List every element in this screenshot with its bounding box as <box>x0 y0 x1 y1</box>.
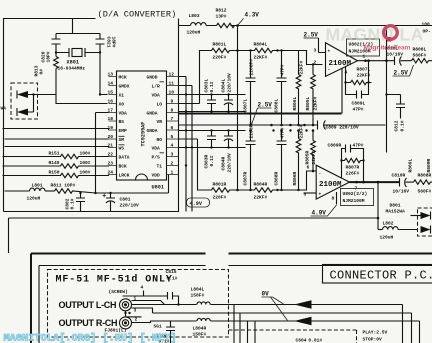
svg-text:RO: RO <box>157 137 163 143</box>
svg-text:10/16V: 10/16V <box>387 52 404 58</box>
bias rail 2 with C809 <box>179 124 386 126</box>
svg-text:D801: D801 <box>390 203 401 209</box>
wire top ground rail of oscillator <box>56 33 100 35</box>
svg-text:VR: VR <box>157 119 163 125</box>
wire supply drop to filters <box>237 26 239 51</box>
svg-text:LO: LO <box>157 102 163 108</box>
svg-text:X0: X0 <box>119 102 125 108</box>
capacitor C801 220/10V (polarized) <box>103 192 140 212</box>
dual diode D801 (dashed box, right edge) <box>411 208 432 236</box>
0V net label with leaders <box>262 291 288 321</box>
wire box top to oscillator rail <box>72 19 74 34</box>
svg-text:150F#: 150F# <box>193 332 207 338</box>
svg-text:GNDA: GNDA <box>147 128 158 134</box>
ground mid line <box>153 313 412 343</box>
svg-text:2.5V: 2.5V <box>394 70 409 77</box>
svg-text:3: 3 <box>134 308 137 314</box>
svg-text:BS: BS <box>119 119 125 125</box>
wire VDA pin17 feed <box>96 113 109 194</box>
svg-text:0#: 0# <box>39 69 45 75</box>
pin1 output node <box>358 54 395 63</box>
D/A converter section box <box>4 19 179 212</box>
wire IC pin1 VDD down <box>168 175 170 194</box>
svg-text:C803R: C803R <box>204 154 210 168</box>
svg-text:5: 5 <box>171 134 174 140</box>
svg-text:P/S: P/S <box>152 155 161 161</box>
capacitor C820 <box>41 34 61 63</box>
svg-text:C815: C815 <box>166 269 177 275</box>
svg-text:R801R: R801R <box>213 182 227 188</box>
svg-text:C801: C801 <box>120 197 131 203</box>
svg-text:0.1#: 0.1# <box>209 81 215 92</box>
svg-text:13P#: 13P# <box>216 14 227 20</box>
RCA jack FJ801 L <box>120 299 132 311</box>
svg-text:6: 6 <box>171 125 174 131</box>
output capacitor C810L 10/16V <box>385 46 412 66</box>
lower section inner frame <box>39 266 432 343</box>
resistor R805L 22K (vertical) <box>305 63 319 126</box>
svg-text:U801: U801 <box>152 185 164 191</box>
designator U802(1/2) NJM2100M <box>347 39 380 56</box>
wire crystal line B to IC pin15 <box>100 47 108 95</box>
svg-text:10/16V: 10/16V <box>393 189 410 195</box>
svg-text:1: 1 <box>134 296 137 302</box>
vertical bus beside IC (ground) <box>179 77 187 212</box>
svg-text:4: 4 <box>171 143 174 149</box>
svg-text:MAGNITOLA[.ORG] [.RU] [.NET]: MAGNITOLA[.ORG] [.RU] [.NET] <box>4 333 177 343</box>
svg-text:GMDX: GMDX <box>119 84 130 90</box>
svg-text:+: + <box>319 193 322 198</box>
svg-text:OP-: OP- <box>423 29 432 35</box>
IC U801 TC9299AF <box>117 71 167 191</box>
svg-text:5: 5 <box>304 192 307 198</box>
svg-text:100#: 100# <box>80 151 91 157</box>
svg-text:2: 2 <box>135 317 138 323</box>
resistor R151 100 (DATA line) <box>3 151 109 159</box>
svg-text:3: 3 <box>314 48 317 54</box>
svg-text:220/10V: 220/10V <box>227 153 233 173</box>
svg-text:STOP:0V: STOP:0V <box>363 337 383 343</box>
svg-text:150F#: 150F# <box>191 293 205 299</box>
svg-text:(D/A CONVERTER): (D/A CONVERTER) <box>98 10 177 20</box>
svg-text:OUTPUT L-CH: OUTPUT L-CH <box>59 300 117 310</box>
svg-text:3: 3 <box>171 152 174 158</box>
svg-text:47P#: 47P# <box>353 143 364 149</box>
svg-text:C807L: C807L <box>243 98 249 112</box>
svg-text:L803: L803 <box>189 13 200 19</box>
svg-text:0.1#: 0.1# <box>400 120 406 131</box>
svg-text:100#: 100# <box>80 170 91 176</box>
svg-text:C810R: C810R <box>392 173 406 179</box>
resistor R801R 220 <box>198 182 238 201</box>
svg-text:NJM2100M: NJM2100M <box>343 198 365 204</box>
inductor L803 120uH <box>187 13 207 36</box>
output capacitor C810R 10/16V <box>392 173 414 195</box>
svg-text:R151: R151 <box>49 151 60 157</box>
svg-text:4.9V: 4.9V <box>312 210 327 217</box>
svg-text:DATA: DATA <box>119 155 130 161</box>
svg-text:GNDD: GNDD <box>147 75 158 81</box>
dual diode D802 (dashed box) <box>1 83 38 119</box>
svg-text:C809 220/10V: C809 220/10V <box>326 125 359 131</box>
svg-text:LRCK: LRCK <box>119 173 130 179</box>
svg-text:13: 13 <box>108 72 114 78</box>
arrow on L line <box>294 300 312 308</box>
capacitor C808R 47P <box>274 127 287 191</box>
svg-text:MCK: MCK <box>119 75 128 81</box>
feedback resistor R807L 22K <box>344 59 371 84</box>
svg-text:X1: X1 <box>119 93 125 99</box>
svg-text:LA: LA <box>400 25 424 45</box>
svg-text:2200P#: 2200P# <box>249 122 255 139</box>
svg-text:100#: 100# <box>80 160 91 166</box>
svg-text:R805R: R805R <box>305 150 311 164</box>
capacitor C803L 0.1 <box>204 78 217 112</box>
resistor R808R 560 <box>414 173 432 195</box>
wire R output down to connector rail <box>377 182 379 229</box>
op-amp U802 (2/2) R channel <box>316 165 349 199</box>
svg-text:C808R: C808R <box>274 171 280 185</box>
svg-text:8: 8 <box>171 108 174 114</box>
svg-text:R812: R812 <box>216 8 227 14</box>
resistor R806L 22K (vertical) <box>292 51 305 127</box>
L-ch signal line to connector <box>132 303 403 343</box>
svg-text:+: + <box>328 50 331 55</box>
label 2.5V (filter bias) <box>252 102 273 125</box>
svg-text:22KF#: 22KF# <box>357 73 371 79</box>
svg-text:47P#: 47P# <box>280 127 286 138</box>
svg-text:22KF#: 22KF# <box>254 195 268 201</box>
svg-text:16: 16 <box>108 99 114 105</box>
IC left pin stubs and numbers 13-24 <box>108 72 130 179</box>
op-amp U802 (1/2) L channel <box>326 43 358 77</box>
capacitor C815 0.1 (series) <box>166 269 178 300</box>
svg-text:L804L: L804L <box>191 287 205 293</box>
svg-text:SM: SM <box>119 137 125 143</box>
lower section outer frame <box>31 254 432 343</box>
svg-text:15: 15 <box>108 90 114 96</box>
arrow on R line <box>294 317 312 325</box>
svg-text:VDA: VDA <box>152 93 161 99</box>
svg-text:R804R: R804R <box>254 182 268 188</box>
jack pin 1 wire <box>132 301 165 305</box>
svg-text:C604 0.01#: C604 0.01# <box>296 338 323 343</box>
IC right pin stubs and numbers 12-1 <box>147 72 179 179</box>
resistor R811 10P <box>51 183 169 194</box>
svg-text:C804R: C804R <box>221 156 227 170</box>
svg-text:R809L: R809L <box>408 158 414 172</box>
svg-text:47P#: 47P# <box>353 107 364 113</box>
svg-text:7: 7 <box>171 116 174 122</box>
svg-text:R806R: R806R <box>292 171 298 185</box>
inductor L802 120uH <box>378 221 418 241</box>
svg-text:R804L: R804L <box>254 42 268 48</box>
svg-text:C809R: C809R <box>328 143 342 149</box>
wire to R opamp inverting input <box>278 171 317 190</box>
feedback capacitor C809R 47P <box>328 143 364 161</box>
vertical bus 2 <box>179 86 193 212</box>
svg-text:X801: X801 <box>67 60 79 66</box>
inductor L801 120uH <box>5 183 55 202</box>
svg-text:L802: L802 <box>383 221 394 227</box>
svg-text:EMP: EMP <box>119 128 128 134</box>
resistor R804R 22K <box>238 182 279 201</box>
svg-text:VDA: VDA <box>152 146 161 152</box>
label 2.5V (L output) <box>393 65 414 77</box>
capacitor C809 220/10V (series) <box>318 121 359 131</box>
wire diode clamp to IC pin16 <box>34 95 108 104</box>
svg-text:0V: 0V <box>262 291 270 298</box>
svg-text:220F#: 220F# <box>213 195 227 201</box>
svg-text:560F#: 560F# <box>413 53 427 59</box>
capacitor C814 0.1 (to ground) <box>154 321 176 343</box>
node 4.3V <box>236 12 259 27</box>
svg-text:120uH: 120uH <box>187 30 201 36</box>
svg-text:R806L: R806L <box>292 96 298 110</box>
svg-text:C808L: C808L <box>274 98 280 112</box>
resistor R150 100 (LRCK line) <box>3 170 109 178</box>
resistor R801L 220 <box>200 42 238 61</box>
svg-text:120uH: 120uH <box>27 196 41 202</box>
svg-text:MA152WA: MA152WA <box>386 209 406 215</box>
capacitor C812 0.1 <box>387 95 406 132</box>
svg-text:22KF#: 22KF# <box>299 60 305 74</box>
svg-text:WS: WS <box>119 146 125 152</box>
capacitor C807R 2200P <box>243 122 256 191</box>
CONNECTOR P.C.B title box <box>323 265 432 284</box>
capacitor C804L 220/10V <box>221 73 234 113</box>
svg-text:MF-51 MF-51d ONLY: MF-51 MF-51d ONLY <box>56 274 173 286</box>
svg-text:22KF#: 22KF# <box>254 55 268 61</box>
svg-text:2: 2 <box>171 161 174 167</box>
svg-text:2200P#: 2200P# <box>249 59 255 76</box>
svg-text:VDA: VDA <box>119 111 128 117</box>
svg-text:C809L: C809L <box>352 101 366 107</box>
wire SM input <box>5 138 109 140</box>
svg-text:22KF#: 22KF# <box>311 150 317 164</box>
vertical 2.5V distribution line <box>386 26 388 153</box>
svg-text:2.5V: 2.5V <box>258 102 273 109</box>
resistor R804L 22K <box>238 42 279 61</box>
svg-text:0.1#: 0.1# <box>167 276 178 282</box>
svg-text:4: 4 <box>141 285 144 291</box>
svg-text:MagnitolaTeam: MagnitolaTeam <box>364 45 411 52</box>
svg-text:2: 2 <box>314 60 317 66</box>
screw pin 4 line <box>109 285 179 305</box>
bus GNDA R (pin6 row) <box>179 130 246 132</box>
connector feed rail <box>9 217 379 219</box>
inductor L804L 150 (ferrite) <box>191 287 211 309</box>
svg-text:22KF#: 22KF# <box>299 124 305 138</box>
RCA jack FJ801 R <box>120 317 132 329</box>
crystal X801 16-9344MHz <box>55 48 101 72</box>
svg-text:226F#: 226F# <box>346 171 360 177</box>
svg-text:L801: L801 <box>32 183 43 189</box>
resistor R145 100 (BCK line) <box>3 160 109 168</box>
svg-text:R808L: R808L <box>413 47 427 53</box>
svg-text:9: 9 <box>171 99 174 105</box>
svg-text:11: 11 <box>169 81 175 87</box>
svg-text:18P#: 18P# <box>111 37 117 48</box>
watermark MAGNITOLA (top right) <box>326 25 424 45</box>
wire LO pin9 to L filter <box>179 51 206 104</box>
svg-text:TC9299AF: TC9299AF <box>141 122 147 147</box>
svg-text:OUTPUT R-CH: OUTPUT R-CH <box>59 318 118 328</box>
svg-text:0.1#: 0.1# <box>70 198 76 209</box>
svg-text:220/10V: 220/10V <box>120 203 140 209</box>
svg-text:SG1: SG1 <box>154 324 163 330</box>
svg-text:R145: R145 <box>49 160 60 166</box>
designator U802(2/2) NJM2100M <box>341 189 374 206</box>
svg-text:WA: WA <box>1 106 7 112</box>
svg-text:VDD: VDD <box>152 173 161 179</box>
svg-text:R809R: R809R <box>426 158 432 172</box>
diode D801 MA152WA label <box>386 203 406 215</box>
svg-text:4.3V: 4.3V <box>245 12 260 19</box>
PLAY/STOP voltage note <box>363 330 388 343</box>
svg-text:R807L: R807L <box>357 67 371 73</box>
svg-text:R807R: R807R <box>346 165 360 171</box>
feedback capacitor C809L 47P <box>346 83 369 113</box>
capacitor C802 0.1 <box>65 192 86 212</box>
svg-text:GNDA: GNDA <box>147 111 158 117</box>
top right corner note <box>422 22 432 35</box>
resistor R812 13P <box>216 8 235 28</box>
svg-text:-: - <box>328 68 331 73</box>
svg-text:220/10V: 220/10V <box>227 73 233 93</box>
svg-text:R150: R150 <box>49 170 60 176</box>
pin7 output node <box>350 181 400 192</box>
svg-text:12: 12 <box>169 72 175 78</box>
bus VDA R (pin4 row) <box>179 147 246 149</box>
svg-text:CONNECTOR P.C.B: CONNECTOR P.C.B <box>330 269 432 283</box>
svg-text:(SCREW): (SCREW) <box>109 289 128 295</box>
svg-text:2.5V: 2.5V <box>304 32 319 39</box>
svg-text:BCK: BCK <box>119 164 128 170</box>
jack pin 2 wire <box>126 316 142 318</box>
svg-text:R801L: R801L <box>213 42 227 48</box>
connector ribbon drops <box>234 305 255 343</box>
svg-text:2100M: 2100M <box>329 60 352 68</box>
top supply rail from box to right edge <box>179 25 432 27</box>
svg-text:2100M: 2100M <box>319 181 342 189</box>
svg-text:-: - <box>319 172 322 177</box>
wire RO pin5 to R filter <box>179 139 206 190</box>
watermark logo ring (red O) <box>384 26 398 42</box>
svg-text:18P#: 18P# <box>46 51 52 62</box>
capacitor C807L 2200P <box>243 49 256 126</box>
svg-text:U802(2/2): U802(2/2) <box>343 191 368 197</box>
MF-51 dashed option box <box>48 270 229 338</box>
jack ground link <box>124 311 130 317</box>
pin4 stub to bias rail <box>342 68 348 113</box>
jack pin 3 wire <box>132 308 153 313</box>
pin8 stub <box>332 192 337 205</box>
svg-text:L/R: L/R <box>152 84 161 90</box>
svg-text:C804L: C804L <box>221 78 227 92</box>
svg-text:120uH: 120uH <box>380 235 394 241</box>
capacitor C803R 0.1 <box>204 129 217 168</box>
svg-text:14: 14 <box>108 81 114 87</box>
svg-text:T1: T1 <box>157 164 163 170</box>
svg-text:22KF#: 22KF# <box>313 96 319 110</box>
feedback resistor R807R 22K <box>340 158 365 183</box>
wire WS input <box>5 147 109 148</box>
svg-text:10: 10 <box>169 90 175 96</box>
svg-text:0.1#: 0.1# <box>209 155 215 166</box>
resistor R813 0ohm (vertical) <box>34 47 59 95</box>
svg-text:PLAY:2.5V: PLAY:2.5V <box>363 330 388 336</box>
svg-text:1: 1 <box>171 170 174 176</box>
bias rail (thick) <box>179 113 342 115</box>
R-ch signal line to connector <box>132 321 420 343</box>
svg-text:6: 6 <box>307 165 310 171</box>
pin3 stub and 2.5V ref <box>304 32 326 54</box>
label 4.9V (R opamp) <box>311 205 337 217</box>
svg-text:C807R: C807R <box>243 171 249 185</box>
svg-text:220F#: 220F# <box>213 55 227 61</box>
svg-text:21: 21 <box>108 143 114 149</box>
capacitor C804R 220/10V <box>221 129 234 172</box>
resistor R805R 22K (vertical) <box>305 129 318 172</box>
pin5 stub <box>304 192 317 198</box>
svg-text:C812: C812 <box>394 120 400 131</box>
resistor R806R 22K (vertical) <box>292 124 305 191</box>
capacitor C821 <box>96 34 117 48</box>
dashed 0V return line <box>229 330 357 343</box>
label 4.9V (boxed) <box>187 198 210 207</box>
svg-text:18: 18 <box>108 116 114 122</box>
inductor L804R 150 (ferrite) <box>193 317 211 338</box>
resistor R808L 560 <box>412 47 432 63</box>
bus GNDA L (pin8 row) <box>179 111 246 113</box>
svg-text:560F#: 560F# <box>418 189 432 195</box>
svg-text:8: 8 <box>332 196 335 202</box>
svg-text:C803L: C803L <box>204 78 210 92</box>
capacitor C808L 47P <box>274 49 287 126</box>
svg-text:R808R: R808R <box>418 173 432 179</box>
svg-text:R805L: R805L <box>305 96 311 110</box>
wire EMP input <box>3 129 109 131</box>
svg-text:16-9344MHz: 16-9344MHz <box>58 66 86 72</box>
wire to opamp inverting input <box>278 51 323 65</box>
bus VDA L (pin10 row) <box>179 94 246 96</box>
svg-text:L804R: L804R <box>193 326 207 332</box>
svg-text:R811 10P#: R811 10P# <box>51 183 76 189</box>
svg-text:47P#: 47P# <box>280 64 286 75</box>
